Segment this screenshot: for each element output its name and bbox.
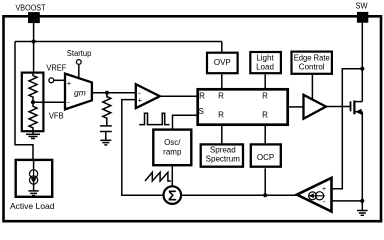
wire gm output to comparator xyxy=(92,92,136,94)
wire OVP to latch xyxy=(221,74,223,88)
resistor R2 (lower divider) xyxy=(29,102,37,134)
ground compensation xyxy=(100,140,111,145)
wire comparator noninverting input from summer xyxy=(122,100,164,196)
svg-text:Startup: Startup xyxy=(67,49,92,58)
node source ground junction xyxy=(360,199,364,203)
wire capacitor to ground xyxy=(105,132,107,141)
waveform sawtooth ramp xyxy=(145,172,171,181)
svg-text:R: R xyxy=(262,92,268,101)
wire ground node to ground xyxy=(361,201,363,211)
transistor Q1 MOSFET xyxy=(351,100,363,114)
resistor divider box xyxy=(22,73,44,132)
wire VBOOST pin down to divider xyxy=(33,22,35,73)
wire summer to current sense amp xyxy=(181,194,297,196)
svg-text:R: R xyxy=(199,92,205,101)
wire Edge Rate Control to driver xyxy=(311,74,313,100)
block Light Load xyxy=(250,52,281,73)
wire VREF to gm noninverting input xyxy=(54,79,65,81)
wire bus to OVP xyxy=(221,42,223,53)
block OVP xyxy=(207,53,238,73)
svg-text:Load: Load xyxy=(256,62,274,71)
svg-text:gm: gm xyxy=(74,87,86,97)
wire VBOOST bus horizontal xyxy=(15,41,222,43)
svg-text:+: + xyxy=(67,79,72,88)
svg-text:R: R xyxy=(218,92,224,101)
wire Osc to summer xyxy=(171,166,173,186)
svg-text:R: R xyxy=(262,111,268,120)
latch U3 RS xyxy=(198,89,288,124)
wire bus left branch down to Active Load xyxy=(15,42,33,161)
terminal Startup xyxy=(76,60,81,65)
node VBOOST junction xyxy=(31,39,35,43)
svg-text:ramp: ramp xyxy=(163,147,182,156)
svg-text:Edge Rate: Edge Rate xyxy=(294,53,331,62)
svg-text:Control: Control xyxy=(299,63,325,72)
svg-text:Active Load: Active Load xyxy=(10,201,55,211)
svg-text:VBOOST: VBOOST xyxy=(16,3,46,12)
block Active Load xyxy=(10,160,55,211)
svg-text:+: + xyxy=(138,96,143,105)
pin VBOOST xyxy=(16,3,46,23)
wire comparator output to latch R xyxy=(160,95,198,97)
wire latch S input from oscillator xyxy=(173,115,198,129)
terminal VREF xyxy=(49,78,54,83)
svg-text:Osc/: Osc/ xyxy=(164,138,181,147)
svg-text:Spread: Spread xyxy=(210,146,236,155)
svg-text:+: + xyxy=(322,186,326,193)
wire SW pin to drain xyxy=(361,22,363,102)
wire source down to ground node xyxy=(361,112,363,201)
pin SW xyxy=(356,2,369,23)
node gm output xyxy=(105,91,109,95)
wire latch to OCP xyxy=(264,124,266,145)
block Osc/ramp xyxy=(153,130,191,166)
svg-text:Light: Light xyxy=(256,54,274,63)
svg-text:-: - xyxy=(67,97,70,106)
op-amp U1 gm error amplifier xyxy=(65,74,92,110)
node drain sense junction xyxy=(360,67,364,71)
wire latch output to driver xyxy=(288,106,304,108)
node OCP sense junction xyxy=(263,193,267,197)
resistor R1 (upper divider) xyxy=(29,73,37,102)
ground divider xyxy=(26,134,40,138)
ground source xyxy=(357,211,368,216)
wire drain sense to amp noninverting xyxy=(332,69,363,189)
summer node sigma xyxy=(164,186,182,204)
block OCP xyxy=(251,144,281,166)
ground active load xyxy=(28,191,38,196)
wire Light Load to latch xyxy=(264,74,266,88)
waveform clock pulses xyxy=(139,113,169,124)
block Spread Spectrum xyxy=(201,144,243,166)
svg-text:-: - xyxy=(323,197,326,206)
buffer U4 gate driver xyxy=(304,95,327,119)
svg-text:Σ: Σ xyxy=(168,189,177,205)
svg-text:R: R xyxy=(218,111,224,120)
wire OCP down to sense line xyxy=(264,168,266,195)
comparator U2 PWM xyxy=(136,84,160,108)
svg-text:OVP: OVP xyxy=(214,58,231,67)
wire VFB tap to gm inverting input xyxy=(33,101,65,103)
current source I1 active load xyxy=(29,160,37,191)
svg-text:S: S xyxy=(199,107,204,116)
op-amp U5 current sense amplifier xyxy=(297,178,332,212)
wire amp inverting to ground node xyxy=(332,200,363,202)
wire Startup to gm amp xyxy=(78,64,80,78)
resistor compensation xyxy=(103,93,111,126)
node VFB tap xyxy=(31,100,35,104)
svg-text:SW: SW xyxy=(356,2,368,11)
svg-text:VREF: VREF xyxy=(46,64,66,73)
capacitor compensation xyxy=(100,126,112,132)
wire latch to Spread Spectrum xyxy=(221,124,223,145)
svg-text:VFB: VFB xyxy=(49,111,64,120)
svg-text:Spectrum: Spectrum xyxy=(206,155,241,164)
wire driver output to gate xyxy=(326,106,351,108)
svg-text:OCP: OCP xyxy=(257,153,274,162)
block Edge Rate Control xyxy=(292,52,332,74)
